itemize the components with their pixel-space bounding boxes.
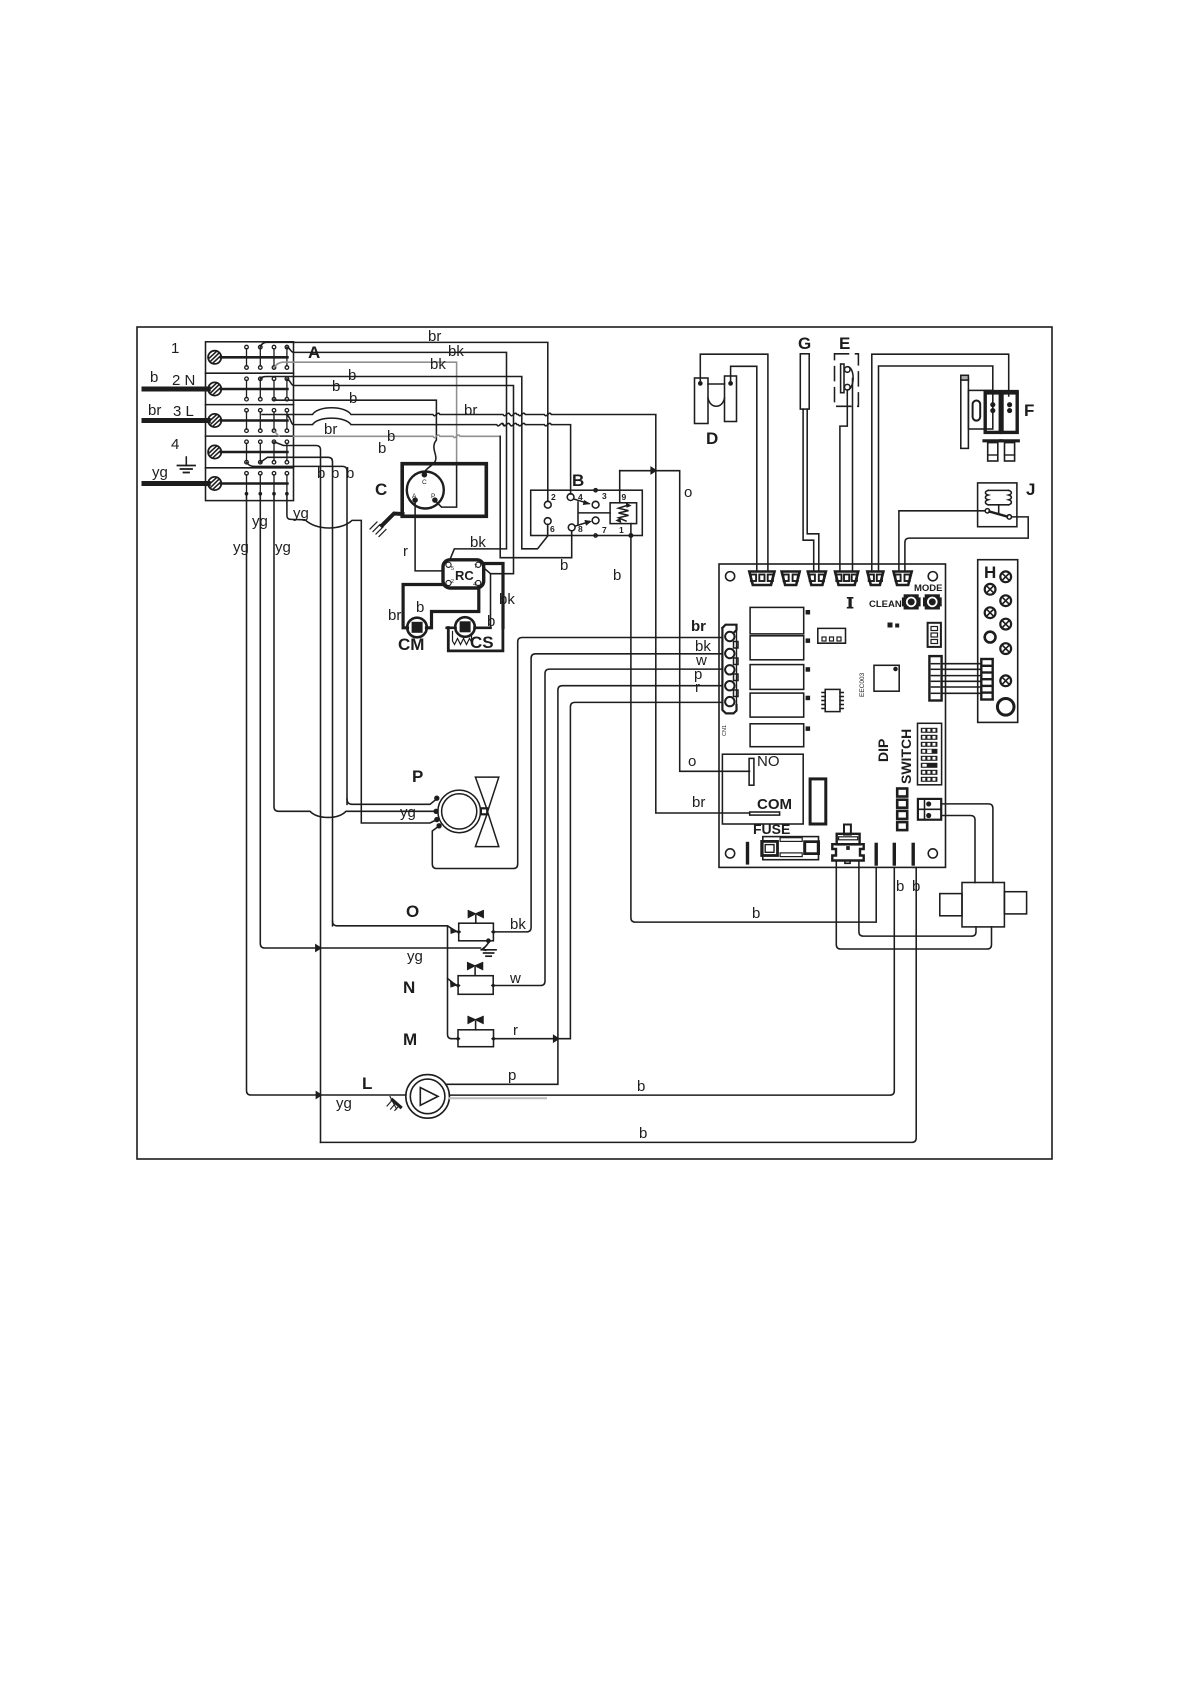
capacitor CM <box>407 618 427 638</box>
wire br: terminal 3 L, long run to COM contact (crosses B9/NO tap) <box>262 408 750 813</box>
wire b: terminal 4 to fan motor P pin 1 <box>247 462 348 804</box>
svg-text:b: b <box>378 440 386 457</box>
wire bk (shield lead): terminal block to compressor pin P <box>274 362 457 464</box>
board label I <box>847 597 854 609</box>
water-pump connector on board <box>832 825 863 864</box>
svg-text:F: F <box>1024 401 1034 420</box>
svg-text:yg: yg <box>252 513 268 530</box>
wire: pump connector leg 2 to K bottom <box>859 862 976 936</box>
CN wire p: connector to pump L <box>446 686 722 1085</box>
component and wire labels <box>308 334 1035 1093</box>
svg-text:COM: COM <box>757 796 792 813</box>
terminal block A body <box>206 342 294 501</box>
screw terminal row 1 <box>208 351 287 364</box>
svg-text:p: p <box>508 1067 516 1084</box>
relay NO/COM box on board <box>722 754 803 824</box>
svg-text:O: O <box>406 902 419 921</box>
svg-text:yg: yg <box>275 539 291 556</box>
wire b: board terminal pin 2 to K <box>941 816 975 883</box>
wire colour labels <box>233 328 920 1142</box>
B pin number labels <box>550 491 627 535</box>
RC pin numbers <box>451 564 477 588</box>
tiny pads near CLEAN <box>888 623 893 628</box>
wire b: terminal 2 N to run capacitor RC / start capacitor CS <box>287 379 514 628</box>
svg-text:4: 4 <box>578 492 583 502</box>
fuse holder F body <box>968 390 992 429</box>
svg-text:7: 7 <box>602 525 607 535</box>
svg-text:8: 8 <box>578 524 583 534</box>
svg-text:br: br <box>691 618 706 635</box>
fuse F tube 2 <box>1001 393 1019 461</box>
svg-text:b: b <box>317 465 325 482</box>
svg-text:2: 2 <box>551 492 556 502</box>
B pin 4 <box>567 494 574 501</box>
screw terminal row 2 <box>208 382 287 395</box>
svg-text:b: b <box>332 378 340 395</box>
junction arrow: yg at pump line <box>316 1091 322 1098</box>
svg-text:SWITCH: SWITCH <box>898 729 914 784</box>
wire br: terminal 3 L to relay B pin 4 <box>287 415 571 494</box>
svg-text:yg: yg <box>407 948 423 965</box>
wire b: B pin 1 to control board bottom pin <box>631 536 876 923</box>
svg-text:br: br <box>692 794 705 811</box>
terminal block pin columns <box>245 345 289 495</box>
wire yg: earth terminal to cable clamp and fan motor P pin 3 <box>287 495 437 823</box>
wire-harness connector CN on board <box>722 625 738 714</box>
fuse F tube 1 <box>984 393 1002 461</box>
board top connectors 1-6 <box>749 572 774 586</box>
pump L clamp <box>387 1097 401 1111</box>
svg-text:yg: yg <box>152 464 168 481</box>
wire: G lead 1 to board connector 3 <box>803 409 814 571</box>
svg-text:RC: RC <box>455 568 474 583</box>
board bottom pin 1 <box>875 844 878 864</box>
FUSE assembly <box>762 837 820 860</box>
compressor pin C (top) <box>422 473 426 477</box>
B pin 6 lead to wire <box>547 525 549 536</box>
H connector <box>981 659 992 700</box>
compressor pin P <box>433 498 437 502</box>
thick wire: capacitor CM right to RC bottom-right (b) <box>427 587 479 628</box>
svg-text:b: b <box>896 878 904 895</box>
svg-text:br: br <box>324 421 337 438</box>
spare jumper pads column <box>897 789 907 797</box>
B pin 6 <box>544 518 551 525</box>
svg-text:bk: bk <box>499 591 515 608</box>
wire b: board terminal pin to K <box>941 804 993 883</box>
CN wire bk: connector to solenoid valve O <box>495 654 722 932</box>
svg-text:bk: bk <box>448 343 464 360</box>
B pin 1 lead <box>630 524 632 536</box>
wire yg: earth pin 1 down to pump L <box>247 495 406 1095</box>
svg-text:9: 9 <box>622 492 627 502</box>
B internal link <box>578 502 610 525</box>
svg-text:1: 1 <box>619 525 624 535</box>
CN wire r: connector to solenoid valve M <box>496 702 723 1038</box>
B switch arm 4-3 <box>575 499 590 504</box>
B heater zigzag <box>619 505 629 521</box>
wire b: fan motor pin1 from terminal 4 <box>347 799 437 805</box>
float switch E internals <box>841 364 844 393</box>
relay J coil <box>988 490 1008 504</box>
svg-text:B: B <box>572 471 584 490</box>
wire: G lead 2 to board connector 3 <box>807 409 819 571</box>
svg-text:b: b <box>912 878 920 895</box>
feed wire terminal 3 L <box>144 418 208 423</box>
svg-text:br: br <box>388 607 401 624</box>
svg-text:C: C <box>375 480 387 499</box>
wire bk: terminal 1 to run capacitor RC pin (top-left) <box>287 347 507 560</box>
svg-text:NO: NO <box>757 753 780 770</box>
svg-text:3: 3 <box>602 491 607 501</box>
display board H outline <box>978 560 1018 723</box>
CLEAN button <box>902 594 921 609</box>
svg-text:N: N <box>403 978 415 997</box>
svg-text:G: G <box>798 334 811 353</box>
svg-text:5: 5 <box>451 566 454 572</box>
wire: fuse F left to board connector 5 <box>879 366 993 572</box>
gray stub right of pump <box>450 1097 546 1099</box>
svg-text:b: b <box>150 369 158 386</box>
svg-text:CS: CS <box>470 633 494 652</box>
DIP switch block <box>918 723 942 785</box>
NO contact bar <box>749 758 754 785</box>
svg-text:CM: CM <box>398 635 424 654</box>
junction arrow: yg at valve O earth line <box>316 944 322 951</box>
svg-text:A: A <box>412 493 417 500</box>
svg-text:J: J <box>1026 480 1035 499</box>
screw terminal row 5 (earth) <box>208 477 287 490</box>
compressor C motor circle <box>407 472 444 509</box>
plug connector K <box>962 883 1004 927</box>
svg-text:o: o <box>688 753 696 770</box>
wire b: terminal 2 N to compressor pin C <box>274 399 436 473</box>
relay/protector B body <box>531 490 643 535</box>
wire: E lead 2 to board connector 4 <box>852 379 854 572</box>
small connector on board <box>818 628 846 643</box>
relay J housing <box>978 483 1017 527</box>
CS case box <box>448 628 503 651</box>
svg-text:P: P <box>431 493 435 500</box>
junction arrow r/p crossing <box>553 1035 559 1042</box>
svg-text:C: C <box>422 479 427 486</box>
thick wire: RC top-right to CS case (bk) <box>483 564 503 628</box>
D link arc <box>708 398 725 406</box>
relay J contacts <box>985 509 989 513</box>
wire: fuse F right to board connector 5 <box>872 354 1009 571</box>
fan motor P <box>434 790 480 833</box>
board-to-display connector <box>929 656 941 700</box>
svg-text:b: b <box>752 905 760 922</box>
svg-text:yg: yg <box>336 1095 352 1112</box>
H LED column right <box>985 571 1011 686</box>
svg-text:M: M <box>403 1030 417 1049</box>
sensor G body <box>800 354 809 409</box>
junction arrow at valve O left pin <box>451 928 458 934</box>
MODE button <box>923 594 942 609</box>
B pin 2 <box>544 501 551 508</box>
screw terminal row 3 <box>208 414 287 427</box>
fuse holder F bracket <box>961 379 969 449</box>
earth symbol <box>178 457 196 473</box>
svg-text:yg: yg <box>233 539 249 556</box>
run capacitor RC body <box>443 560 484 588</box>
svg-text:b: b <box>416 599 424 616</box>
electrolytic capacitor on board <box>810 779 826 824</box>
H big buzzer ring <box>997 699 1014 716</box>
wire yg: earth pin 3 down to fan motor P pin 2 (with hop) <box>274 495 436 817</box>
jumper pin left of fuse <box>746 844 749 863</box>
B pin 9 lead into heater <box>619 490 621 503</box>
svg-text:br: br <box>148 402 161 419</box>
svg-text:r: r <box>513 1022 518 1039</box>
CN wire w: connector to solenoid valve N <box>495 669 722 985</box>
cable clamp at C box corner <box>382 514 403 526</box>
svg-text:2 N: 2 N <box>172 372 195 389</box>
IC U1 on board <box>874 665 899 691</box>
svg-text:b: b <box>637 1078 645 1095</box>
board bottom pin 2 <box>893 844 896 864</box>
valve feed vertical O-N-M <box>448 926 457 1039</box>
thick wire: RC bottom-left to capacitor CM left <box>403 585 446 628</box>
svg-text:br: br <box>464 402 477 419</box>
B heater resistor box <box>610 503 637 524</box>
svg-text:6: 6 <box>550 524 555 534</box>
svg-text:r: r <box>403 543 408 560</box>
wire r: compressor pin A to RC <box>415 502 443 571</box>
fan blades <box>475 777 498 847</box>
svg-text:yg: yg <box>293 505 309 522</box>
wire b: bottom long run to board bottom pin 3 <box>321 867 917 1142</box>
feed wire earth <box>144 481 208 486</box>
valve O earth lead <box>481 939 496 956</box>
B pin 8 <box>568 524 575 531</box>
wire b: terminal 4 down-left bundle to bottom b line <box>274 442 321 1143</box>
wire b: terminal 4 to solenoid valve O feed <box>260 457 332 926</box>
svg-text:E: E <box>839 334 850 353</box>
svg-text:D: D <box>706 429 718 448</box>
svg-text:w: w <box>509 970 521 987</box>
CS wire stubs <box>447 626 491 629</box>
svg-text:4: 4 <box>171 436 179 453</box>
svg-text:bk: bk <box>510 916 526 933</box>
terminal labels <box>148 340 195 481</box>
solenoid valve N body <box>456 963 496 995</box>
CN wire br: connector to fan motor P pin 4 <box>432 638 722 869</box>
wire: E lead 1 to board connector 4 <box>840 390 847 572</box>
pump L body <box>406 1075 450 1119</box>
svg-text:4: 4 <box>473 582 476 588</box>
svg-text:CLEAN: CLEAN <box>869 599 902 610</box>
fuse F top bus <box>985 390 1017 393</box>
compressor pin letters <box>412 479 435 500</box>
svg-text:A: A <box>308 343 320 362</box>
B pin 3 <box>592 501 599 508</box>
svg-text:b: b <box>387 428 395 445</box>
junction arrow at valve N left pin <box>450 981 457 987</box>
svg-text:b: b <box>331 465 339 482</box>
relay bank on board <box>750 607 804 634</box>
svg-text:DIP: DIP <box>875 739 891 762</box>
svg-text:L: L <box>362 1074 372 1093</box>
wire yg: earth pin 2 down to valve O earth <box>260 495 480 948</box>
B switch arm 8-7 <box>576 520 591 526</box>
control board I outline <box>719 564 946 867</box>
svg-text:FUSE: FUSE <box>753 821 790 837</box>
screw terminal block on board (2-pin) <box>918 799 941 820</box>
svg-text:P: P <box>412 767 423 786</box>
solenoid valve O body <box>456 911 496 941</box>
feed wire terminal 2 N <box>144 387 208 392</box>
svg-text:CN1: CN1 <box>722 725 728 736</box>
B pin 7 <box>592 517 599 524</box>
compressor pin A <box>413 498 417 502</box>
board mounting holes <box>726 572 735 581</box>
wire: D right pin to board connector 1 <box>731 366 757 571</box>
svg-text:2: 2 <box>451 579 454 585</box>
board bottom pin 3 <box>912 844 915 864</box>
overload protector D right contact <box>725 376 737 422</box>
svg-text:bk: bk <box>430 356 446 373</box>
screw terminal row 4 <box>208 445 287 458</box>
svg-text:b: b <box>560 557 568 574</box>
svg-text:b: b <box>348 367 356 384</box>
wire br: terminal 1 to relay B pin 2 <box>260 342 548 501</box>
svg-text:b: b <box>639 1125 647 1142</box>
svg-text:EEC003: EEC003 <box>859 672 866 697</box>
svg-text:r: r <box>695 679 700 696</box>
wire b: terminal 2 N to relay B pin 6 <box>260 377 547 549</box>
svg-text:bk: bk <box>470 534 486 551</box>
svg-text:H: H <box>984 563 996 582</box>
wire o: B pin 9 tap to NO contact <box>620 471 750 772</box>
wire: D left pin to board connector 1 <box>700 354 768 571</box>
svg-text:o: o <box>684 484 692 501</box>
svg-text:b: b <box>349 390 357 407</box>
COM contact bar <box>750 812 780 815</box>
H plain LED <box>985 632 996 643</box>
wire b: pump L to board bottom pin 2 <box>449 867 894 1095</box>
wire: pump connector leg 1 to K bottom <box>836 862 991 949</box>
svg-text:b: b <box>613 567 621 584</box>
svg-text:MODE: MODE <box>914 583 943 594</box>
float switch E dashed housing <box>835 354 859 407</box>
svg-text:1: 1 <box>171 340 179 357</box>
svg-text:3 L: 3 L <box>173 403 194 420</box>
D pin dots <box>699 382 702 385</box>
B pin 8 lead down <box>571 531 573 536</box>
solenoid valve M body <box>456 1016 497 1046</box>
CS bleed resistor <box>453 632 472 645</box>
junction arrow on br vertical at o-tap <box>651 467 657 474</box>
svg-text:b: b <box>346 465 354 482</box>
overload protector D left contact <box>695 378 709 424</box>
valve O feed wire from terminal <box>333 921 457 931</box>
IC U2 on board <box>822 689 843 711</box>
svg-text:b: b <box>487 613 495 630</box>
compressor C enclosure <box>402 464 486 517</box>
capacitor CS <box>455 617 475 637</box>
wire b: terminal 3 L to relay B pin 8 <box>274 431 279 436</box>
svg-text:7: 7 <box>474 564 477 570</box>
wire: J NO contact to board connector 6 <box>905 517 1028 572</box>
svg-text:yg: yg <box>400 804 416 821</box>
svg-text:br: br <box>428 328 441 345</box>
4-pin connector right of CLEAN <box>928 623 941 647</box>
ribbon wires board to display H <box>942 663 982 665</box>
outer border frame <box>137 327 1052 1159</box>
wire: J common to board connector 6 <box>899 511 985 572</box>
